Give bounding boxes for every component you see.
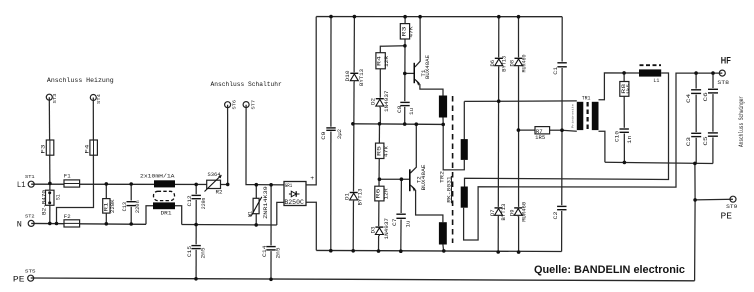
svg-text:C15: C15 <box>186 246 193 257</box>
svg-text:C5: C5 <box>702 136 709 145</box>
svg-text:C1: C1 <box>552 66 559 75</box>
svg-text:Anschluss Schwinger: Anschluss Schwinger <box>738 96 745 147</box>
svg-text:ZNR14K39: ZNR14K39 <box>263 186 269 219</box>
svg-text:PE: PE <box>13 274 25 284</box>
svg-text:Primärseite: Primärseite <box>570 104 574 128</box>
svg-text:Anschluss Schaltuhr: Anschluss Schaltuhr <box>211 81 282 88</box>
svg-text:MUR460: MUR460 <box>522 202 528 222</box>
svg-text:Anschluss Heizung: Anschluss Heizung <box>47 77 114 84</box>
svg-text:BYT13: BYT13 <box>359 69 365 86</box>
svg-text:F3: F3 <box>40 145 47 154</box>
svg-text:2µ2: 2µ2 <box>337 129 343 139</box>
svg-text:ST3: ST3 <box>52 93 58 103</box>
svg-text:ST5: ST5 <box>25 268 36 274</box>
svg-text:1N4937: 1N4937 <box>384 218 390 240</box>
svg-text:D3: D3 <box>370 227 377 234</box>
svg-text:D7: D7 <box>489 209 496 216</box>
svg-text:BYT13: BYT13 <box>501 204 507 221</box>
svg-text:HF: HF <box>721 56 731 67</box>
svg-text:DR1: DR1 <box>161 209 173 216</box>
svg-text:F4: F4 <box>84 144 91 154</box>
svg-text:R2: R2 <box>216 189 223 196</box>
svg-text:+: + <box>310 175 314 182</box>
svg-text:2n5: 2n5 <box>275 248 281 259</box>
svg-text:BUX48AE: BUX48AE <box>425 55 431 79</box>
svg-text:B2-B470: B2-B470 <box>41 190 47 215</box>
svg-text:TR2: TR2 <box>438 171 445 183</box>
svg-text:C6: C6 <box>702 92 709 101</box>
svg-text:C3: C3 <box>685 137 692 146</box>
svg-text:220n: 220n <box>201 198 207 210</box>
svg-text:MUR460: MUR460 <box>521 55 527 73</box>
svg-text:S364: S364 <box>208 171 222 178</box>
svg-text:L1: L1 <box>17 180 26 190</box>
svg-text:C14: C14 <box>261 245 268 257</box>
svg-text:220K: 220K <box>110 198 116 213</box>
svg-text:R5: R5 <box>375 146 382 156</box>
svg-text:BYT13: BYT13 <box>502 56 508 72</box>
svg-text:BUX48AE: BUX48AE <box>421 165 427 191</box>
svg-text:C7: C7 <box>391 219 398 227</box>
svg-text:ST7: ST7 <box>250 100 256 110</box>
svg-text:R1: R1 <box>103 202 110 212</box>
svg-text:C13: C13 <box>121 202 128 211</box>
svg-text:D1: D1 <box>344 192 351 200</box>
svg-text:F1: F1 <box>64 173 72 180</box>
svg-text:U1: U1 <box>247 210 254 217</box>
svg-text:ST6: ST6 <box>232 100 238 110</box>
svg-text:R4: R4 <box>376 55 383 66</box>
svg-text:47k: 47k <box>384 146 390 157</box>
svg-text:47K: 47K <box>409 25 415 37</box>
svg-text:N: N <box>17 220 22 230</box>
svg-text:1u: 1u <box>409 108 415 115</box>
svg-text:D8: D8 <box>509 60 516 67</box>
svg-text:2x10mH/1A: 2x10mH/1A <box>140 173 175 180</box>
svg-text:GR1: GR1 <box>285 182 293 189</box>
svg-text:ST8: ST8 <box>717 80 729 86</box>
svg-text:BYT13: BYT13 <box>357 189 363 206</box>
svg-text:ST9: ST9 <box>726 204 737 210</box>
svg-text:ST4: ST4 <box>96 94 102 104</box>
svg-text:D9: D9 <box>508 209 515 216</box>
svg-text:R6: R6 <box>375 189 382 199</box>
svg-text:Quelle: BANDELIN electronic: Quelle: BANDELIN electronic <box>534 264 685 276</box>
svg-text:PE: PE <box>721 210 733 221</box>
svg-text:1u: 1u <box>405 221 411 228</box>
svg-text:C2: C2 <box>552 212 559 220</box>
svg-text:220n: 220n <box>135 200 141 213</box>
svg-text:C12: C12 <box>186 195 193 206</box>
svg-text:2n5: 2n5 <box>200 248 206 259</box>
svg-text:TR1: TR1 <box>582 95 591 102</box>
svg-text:1R5: 1R5 <box>535 134 545 141</box>
svg-text:B250C: B250C <box>284 199 304 206</box>
svg-text:1k5: 1k5 <box>625 84 631 95</box>
svg-text:C8: C8 <box>396 106 403 114</box>
svg-text:R3: R3 <box>400 27 407 37</box>
svg-text:D2: D2 <box>370 98 377 105</box>
svg-text:C9: C9 <box>320 132 327 140</box>
svg-text:C4: C4 <box>685 93 692 103</box>
svg-text:D10: D10 <box>344 71 351 82</box>
svg-text:ST2: ST2 <box>25 214 35 220</box>
svg-text:F2: F2 <box>64 213 71 220</box>
svg-text:12R: 12R <box>384 56 390 67</box>
svg-text:ST1: ST1 <box>25 174 35 180</box>
svg-text:1N4937: 1N4937 <box>384 91 390 113</box>
svg-text:RK-8031: RK-8031 <box>446 176 452 203</box>
svg-text:S1: S1 <box>55 194 61 200</box>
svg-text:L1: L1 <box>653 77 660 84</box>
svg-text:D6: D6 <box>489 60 496 67</box>
svg-text:1n: 1n <box>627 136 633 144</box>
svg-text:C10: C10 <box>614 131 621 142</box>
svg-text:12R: 12R <box>384 189 390 200</box>
